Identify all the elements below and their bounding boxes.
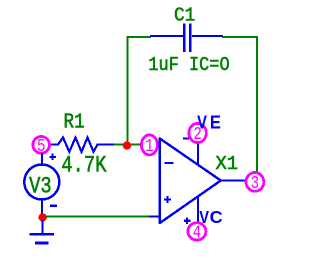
op-amp non-inverting input lead	[149, 215, 161, 217]
voltage source V3 minus marker	[50, 205, 57, 207]
wire: feedback loop left vertical (node R1/C1 junction up to C1)	[126, 36, 128, 145]
wire: resistor to node 1	[114, 144, 142, 146]
node 5	[33, 137, 50, 157]
node 3	[246, 173, 264, 194]
node 1	[141, 135, 157, 157]
op-amp non-inverting input plus symbol	[164, 196, 171, 203]
voltage source V3 top lead	[41, 153, 43, 165]
ground	[30, 220, 54, 243]
svg-text:C1: C1	[174, 4, 195, 26]
node 2	[189, 123, 206, 144]
pin 4 polarity plus marker	[184, 218, 191, 224]
wire: feedback loop right vertical down to node 3	[256, 36, 258, 174]
svg-text:C: C	[210, 207, 223, 227]
svg-text:E: E	[210, 112, 221, 133]
pin 2 polarity minus marker	[183, 138, 189, 140]
voltage source V3 bottom lead	[41, 200, 43, 216]
resistor R1	[50, 138, 115, 152]
svg-text:V: V	[199, 207, 209, 227]
op-amp X1 triangle	[160, 139, 221, 224]
wire: V3 ground node to op-amp non-inverting input	[45, 216, 150, 218]
junction dot at V3/ground node	[39, 213, 47, 221]
svg-text:3: 3	[251, 174, 260, 194]
svg-text:4.7K: 4.7K	[61, 153, 107, 179]
svg-text:V3: V3	[29, 175, 51, 201]
node 4	[188, 223, 206, 244]
voltage source V3 plus marker	[49, 154, 56, 160]
pin 2 (VE) lead	[197, 143, 199, 166]
junction dot at R1/C1 node	[123, 141, 131, 149]
capacitor C1	[150, 24, 223, 53]
voltage source V3 circle	[24, 165, 59, 200]
pin 4 (VC) lead	[197, 197, 199, 224]
op-amp inverting input minus symbol	[165, 162, 174, 164]
op-amp output lead	[221, 179, 247, 181]
svg-text:V: V	[197, 112, 207, 133]
svg-text:R1: R1	[64, 111, 85, 134]
wire: feedback loop top-right horizontal from C1 right lead	[222, 36, 258, 38]
svg-text:1uF IC=O: 1uF IC=O	[148, 54, 229, 76]
svg-text:X1: X1	[216, 153, 239, 175]
wire: feedback loop top-left horizontal to C1 left lead	[126, 36, 151, 38]
svg-text:1: 1	[145, 137, 154, 157]
